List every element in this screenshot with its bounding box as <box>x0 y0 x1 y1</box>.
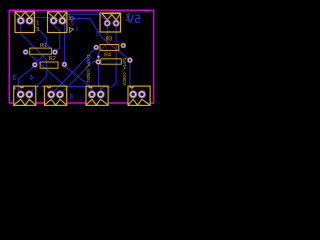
wire: TB3 pad1 down via R3 left area to R4 left pad and TB6 pad2 <box>99 25 108 94</box>
terminal block TB3 outline <box>100 13 121 32</box>
wire: TB2 pad1 down to R1 right pad <box>54 22 60 52</box>
terminal block TB1 outline <box>15 12 34 33</box>
blue mirrored digit 2 center <box>86 60 90 66</box>
pad TB3-1 <box>104 20 111 27</box>
blue mirrored digit 2 near via <box>70 21 74 27</box>
resistor R2 body <box>40 62 58 68</box>
terminal block TB7 outline <box>128 86 150 105</box>
wire: R2 right pad diagonal down to TB6 pad1 elbow <box>64 66 90 87</box>
svg-text:4: 4 <box>30 75 34 82</box>
pad TB4-2 <box>25 90 33 98</box>
pad TB2-1 <box>50 17 58 25</box>
board outline bottom edge segment 1 <box>9 102 14 104</box>
blue mirrored digit 1 near TB3 <box>95 32 99 38</box>
terminal block TB2 outline <box>48 12 67 33</box>
resistor R4 body <box>101 59 122 64</box>
svg-text:1: 1 <box>36 21 39 27</box>
wire: TB1 pad2 diagonal jog to R1 right pad <box>30 21 56 52</box>
pad TB6-1 <box>88 90 96 98</box>
board outline bottom edge segment 5 <box>150 102 154 104</box>
svg-text:2: 2 <box>36 27 39 33</box>
wire: TB2 pad2 down to R2 right pad <box>62 22 64 65</box>
blue mirrored digit 4 near TB5 <box>70 93 74 100</box>
terminal block TB5 outline <box>44 86 66 105</box>
terminal block TB6 outline <box>86 86 108 105</box>
wire: TB2 pad2 up to TB3 pad1 horizontal y=14.2 <box>62 14 107 22</box>
pad R4 right <box>127 57 133 63</box>
TB4 pin tick <box>14 87 16 90</box>
terminal block TB4 outline <box>14 86 36 105</box>
pad R4 left <box>95 59 101 65</box>
wire: TB3 pad2 long vertical down, elbow into TB6 pad2 <box>101 25 116 90</box>
pad TB3-2 <box>113 20 120 27</box>
pad R2 right <box>62 62 68 68</box>
pad R1 right <box>52 49 58 55</box>
wire: TB5 pad2 diagonal up to R4 left pad <box>60 62 98 95</box>
silk dashes between TB4 and TB5 <box>34 85 39 87</box>
pad R2 left <box>32 62 38 68</box>
via V2 <box>97 55 100 58</box>
pad R1 left <box>23 49 29 55</box>
blue mirrored digit 1 top middle <box>75 27 79 33</box>
wire: R2 left pad down to TB4 pad1 <box>18 66 35 95</box>
wire: TB5 pad1 diagonal up to R3 left pad <box>51 47 96 94</box>
board outline right edge <box>153 10 155 104</box>
wire: via V1 to R4 right pad long diagonal <box>72 19 130 61</box>
resistor R1 body <box>30 48 52 54</box>
pad TB6-2 <box>97 90 105 98</box>
net label 5V mirrored blue <box>126 13 140 26</box>
board outline bottom edge segment 2 <box>36 102 45 104</box>
svg-text:5V: 5V <box>126 13 140 26</box>
blue mirrored digit 4 <box>30 75 34 82</box>
board outline bottom edge segment 3 <box>67 102 86 104</box>
board outline bottom edge segment 4 <box>108 102 128 104</box>
svg-text:3: 3 <box>12 75 16 82</box>
pad TB7-2 <box>138 90 146 98</box>
wire: TB1 pad1 down, 45deg, vertical x=46.7, down to TB4 pad2 <box>21 22 47 94</box>
wire: R4 right pad down to TB7 pad1 <box>130 62 133 95</box>
svg-text:R2: R2 <box>49 56 56 62</box>
via V1 <box>70 16 74 20</box>
resistor R3 body <box>100 45 119 51</box>
wire: TB1 pad2 to TB2 pad1 horizontal trace <box>30 18 54 20</box>
pad TB4-1 <box>17 90 25 98</box>
TB2 pin flag marker <box>70 28 74 33</box>
pad TB7-1 <box>129 90 137 98</box>
pad TB5-2 <box>56 90 64 98</box>
board outline left edge <box>8 10 10 104</box>
board outline top edge <box>9 9 154 11</box>
svg-text:R4: R4 <box>104 52 111 58</box>
blue mirrored digit 3 <box>12 75 16 82</box>
pad R3 right <box>120 43 126 49</box>
wire: R1 left pad diagonal down to horizontal into TB6 pad1 <box>26 53 92 95</box>
wire: R2 left pad up-right to R1 right pad <box>35 52 55 64</box>
pad TB2-2 <box>58 17 66 25</box>
svg-text:R1: R1 <box>40 43 47 49</box>
pad TB1-2 <box>25 17 33 25</box>
pad TB1-1 <box>17 17 25 25</box>
pad TB5-1 <box>47 90 55 98</box>
pad R3 left <box>93 45 99 51</box>
svg-text:DATA_GND1: DATA_GND1 <box>85 55 91 83</box>
svg-text:4: 4 <box>70 93 74 100</box>
svg-text:R3: R3 <box>105 37 112 43</box>
